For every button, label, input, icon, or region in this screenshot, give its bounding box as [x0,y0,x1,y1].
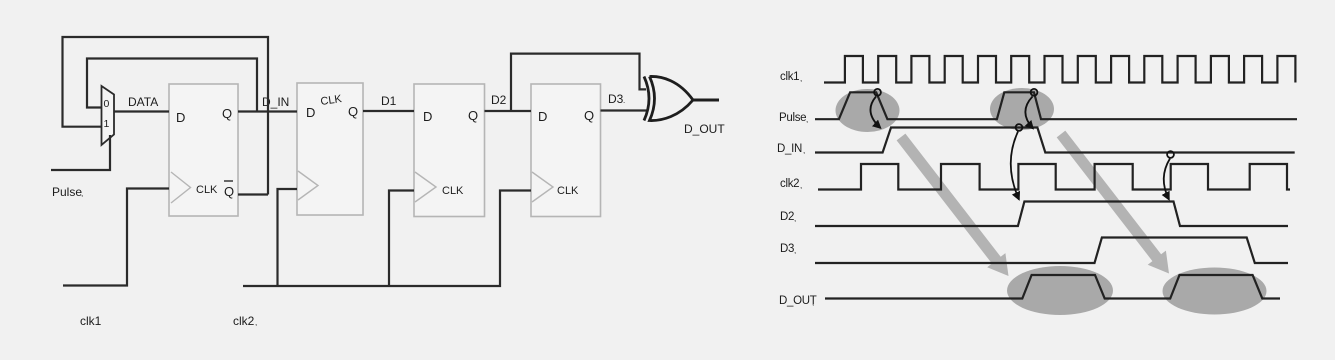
waveform clk2 [818,164,1290,190]
svg-text:.: . [623,96,625,105]
svg-text:Q: Q [468,108,478,123]
highlight ellipse over Pulse pulse 1 [836,89,900,132]
svg-text:D_OUT: D_OUT [684,122,725,136]
svg-text:D_IN: D_IN [777,143,802,155]
wire: outer feedback loop Qbar to mux input 1 [63,37,269,195]
flip-flop U3 clock triangle [415,172,436,202]
svg-text:,: , [803,146,805,155]
highlight ellipse over D_OUT pulse 2 [1163,268,1267,315]
wire: clk2 riser to U3 clock [389,191,414,287]
svg-text:DATA: DATA [128,95,158,109]
svg-text:,: , [794,214,796,223]
svg-text:clk1: clk1 [780,71,799,83]
svg-text:D1: D1 [381,94,397,108]
svg-text:Pulse: Pulse [52,185,82,199]
sample dot on D_IN high at clk2 edge [1016,124,1023,131]
wire: clk1 input to U1 clock [63,189,169,286]
svg-text:,: , [255,318,257,327]
svg-text:clk2: clk2 [780,178,799,190]
flip-flop U1 clock triangle [171,172,191,203]
svg-text:D2: D2 [491,93,507,107]
curved arrow D_IN to D2 rise [1011,132,1019,200]
svg-text:1: 1 [104,118,110,130]
wire: clk2 distribution [243,191,531,287]
wire: mux output DATA to U1.D [114,110,169,112]
svg-text:Q: Q [584,108,594,123]
svg-text:CLK: CLK [196,184,218,196]
svg-text:D3: D3 [608,92,624,106]
waveform D3 [815,238,1288,264]
svg-text:,: , [800,74,802,83]
flip-flop U2 clock triangle [298,171,318,200]
svg-text:D: D [176,110,185,125]
wire: XOR output D_OUT [693,99,719,102]
flip-flop U1 box [169,84,238,216]
sample dot on Pulse fall 1 [874,89,881,96]
wire: U3.Q to U4.D (net D2) [485,110,532,112]
waveform D_OUT [825,275,1280,299]
wire: clk2 riser to U2 clock [278,189,298,286]
svg-text:D: D [538,109,547,124]
svg-text:D3: D3 [780,243,794,255]
svg-text:Pulse: Pulse [779,112,806,124]
svg-text:CLK: CLK [557,185,579,197]
sample dot on D_IN low at clk2 edge [1167,151,1174,158]
svg-text:CLK: CLK [442,185,464,197]
wire: inner feedback loop Q to mux input 0 [87,59,257,112]
flip-flop U4 clock triangle [532,172,553,202]
curved arrow Pulse1 to D_IN rise [870,97,880,129]
waveform D2 [815,202,1288,227]
svg-text:,: , [800,181,802,190]
svg-text:,: , [81,189,83,198]
svg-text:D2: D2 [780,211,794,223]
waveform clk1 [824,56,1295,83]
xor gate G1 [644,76,693,120]
highlight ellipse over Pulse pulse 2 [990,88,1054,130]
gray causality arrow 1 (D_IN to D_OUT pulse 1) [897,134,1009,276]
mux M1 [102,86,115,145]
curved arrow D_IN low to D2 fall [1164,159,1170,200]
svg-text:,: , [812,298,814,307]
svg-text:D_IN: D_IN [262,95,289,109]
svg-text:,: , [794,246,796,255]
waveform D_IN [815,128,1295,153]
gray causality arrow 2 (D_IN to D_OUT pulse 2) [1057,131,1169,274]
svg-text:D: D [423,109,432,124]
wire: U1.Q to U2.D (net D_IN) [238,110,297,112]
svg-text:,: , [806,115,808,124]
svg-text:Q: Q [348,104,358,119]
waveform Pulse [815,92,1297,119]
flip-flop U4 box [531,84,601,217]
wire: Pulse input to mux select [51,135,110,170]
wire: U1.Qbar out [238,193,268,195]
svg-text:Q: Q [224,184,234,199]
wire: U2.Q to U3.D (net D1) [363,110,414,112]
svg-text:clk2: clk2 [233,314,255,328]
svg-text:D: D [306,105,315,120]
curved arrow Pulse2 to D_IN fall [1025,97,1033,129]
sample dot on Pulse fall 2 [1031,89,1038,96]
flip-flop U3 box [414,84,485,217]
wire: U4.Q to XOR bottom input (net D3) [601,109,649,111]
svg-text:0: 0 [104,98,110,110]
wire: D2 feedback to XOR top input [511,54,646,111]
svg-text:Q: Q [222,106,232,121]
flip-flop U2 box [297,83,363,215]
svg-text:clk1: clk1 [80,314,102,328]
highlight ellipse over D_OUT pulse 1 [1007,266,1113,315]
